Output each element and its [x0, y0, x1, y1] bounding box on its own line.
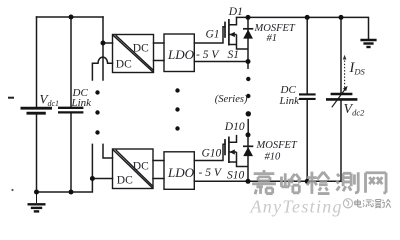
- svg-text:LDO: LDO: [167, 47, 195, 62]
- ellipsis dots series chain column: [246, 77, 251, 117]
- svg-text:- 5 V: - 5 V: [196, 49, 220, 61]
- svg-text:(Series): (Series): [215, 94, 248, 105]
- watermark small text 电源漫谈 (drawn strokes): [355, 199, 391, 208]
- wire DC-link cap C1 bottom lead: [70, 114, 72, 193]
- wire battery V_dc1 bottom lead: [36, 114, 38, 192]
- wire DC/DC1 to LDO1 upper: [154, 42, 165, 44]
- wire positive bus upper segment: [102, 17, 104, 80]
- DC/DC converter 2 box: [113, 149, 154, 189]
- wire V_dc2 bottom lead: [340, 101, 342, 181]
- wire -5V to S1 node: [194, 61, 248, 63]
- svg-text:#1: #1: [267, 33, 278, 44]
- junction node top rail / V_dc2: [339, 15, 344, 20]
- wire return bus lower segment: [91, 144, 93, 178]
- wire DC/DC2 to LDO2 lower: [153, 178, 164, 180]
- wire DC-link cap C1 top lead: [70, 17, 72, 107]
- ground left: [28, 192, 46, 211]
- wire top-right rail: [237, 17, 369, 39]
- svg-text:S1: S1: [228, 49, 240, 61]
- capacitor C1 DC-link plates: [58, 108, 83, 113]
- svg-text:G10: G10: [202, 148, 222, 160]
- watermark chinese big text 嘉峪检测网 (drawn strokes): [252, 170, 386, 194]
- wire DC/DC2 lower input: [92, 178, 112, 180]
- svg-text:DC: DC: [133, 161, 149, 173]
- wire DC-link cap C2 top lead: [306, 17, 308, 92]
- DC/DC converter 2 labels: [117, 161, 149, 187]
- label MOSFET #1: [254, 23, 296, 44]
- stray scan speck: [11, 189, 13, 191]
- junction node S1 source: [246, 59, 251, 64]
- LDO regulator 1 box: [164, 34, 194, 72]
- MOSFET Q1 body arrow: [229, 32, 235, 37]
- battery V_dc2 plates (variable): [326, 94, 357, 99]
- junction node top rail / C1: [69, 15, 74, 20]
- svg-text:LDO: LDO: [167, 165, 195, 180]
- wire series chain upper stub: [247, 62, 249, 69]
- svg-text:AnyTesting: AnyTesting: [250, 196, 343, 216]
- wire positive bus lower segment: [103, 144, 113, 158]
- MOSFET Q10 body arrow: [229, 149, 235, 154]
- MOSFET Q10: [225, 135, 248, 167]
- wire battery V_dc1 top lead: [36, 17, 38, 107]
- DC/DC converter 1 labels: [116, 43, 149, 71]
- svg-text:DC: DC: [116, 59, 132, 71]
- wire DC/DC2 to LDO2 upper: [153, 160, 164, 162]
- ellipsis dots left bus column: [95, 90, 99, 134]
- label DC Link left: [71, 87, 93, 109]
- LDO regulator 2 box: [164, 152, 194, 190]
- battery V_dc1 plates: [21, 108, 53, 113]
- wire DC/DC1 to LDO1 lower: [154, 60, 165, 62]
- wire series chain resume to D10: [247, 120, 249, 135]
- label DC Link right: [279, 84, 301, 107]
- svg-text:G1: G1: [206, 28, 220, 40]
- junction node top rail / C2: [305, 15, 310, 20]
- body diode D10 of Q10: [243, 135, 253, 181]
- capacitor C2 DC-link plates: [299, 94, 316, 99]
- junction node return bus / DC-DC2 input: [90, 176, 95, 181]
- DC/DC converter 1 box: [113, 35, 154, 73]
- svg-text:#10: #10: [265, 152, 282, 163]
- battery V_dc2 variable arrow: [332, 86, 348, 107]
- svg-text:DC: DC: [117, 175, 133, 187]
- svg-text:- 5 V: - 5 V: [199, 167, 223, 179]
- stray scan mark: [8, 97, 14, 99]
- junction node bottom rail / C1: [69, 190, 74, 195]
- junction node D1 drain: [246, 15, 251, 20]
- wire DC-link cap C2 bottom lead: [306, 101, 308, 182]
- svg-text:S10: S10: [227, 170, 245, 182]
- junction node D10 drain: [246, 132, 251, 137]
- wire DC/DC1 top input: [103, 42, 113, 44]
- junction node bottom rail / battery: [34, 190, 39, 195]
- ellipsis dots converter column: [175, 88, 179, 130]
- wire bottom rail S10 / -5V return: [194, 180, 341, 182]
- svg-text:D10: D10: [224, 121, 245, 133]
- wire top-left rail: [37, 16, 104, 18]
- wire G10 gate lead: [194, 144, 225, 160]
- svg-text:Link: Link: [71, 97, 93, 109]
- wire V_dc2 top lead: [340, 17, 342, 92]
- svg-text:DC: DC: [133, 43, 149, 55]
- svg-text:D1: D1: [228, 6, 243, 18]
- junction node S10 / bottom rail: [246, 179, 251, 184]
- current arrow I_DS dashed: [343, 55, 347, 88]
- wire bottom-left rail: [37, 179, 93, 193]
- watermark logo icon: [343, 199, 352, 208]
- label MOSFET #10: [256, 140, 298, 163]
- ground right: [360, 40, 376, 47]
- junction node bus / DC-DC1 input: [101, 41, 106, 46]
- MOSFET Q1: [225, 17, 248, 49]
- wire G1 gate lead: [194, 27, 225, 43]
- wire return bus upper segment with hop over positive bus: [92, 57, 112, 80]
- junction node bottom rail / C2: [305, 179, 310, 184]
- svg-text:Link: Link: [279, 95, 301, 107]
- body diode D1 of Q1: [243, 17, 253, 61]
- svg-text:MOSFET: MOSFET: [256, 140, 298, 151]
